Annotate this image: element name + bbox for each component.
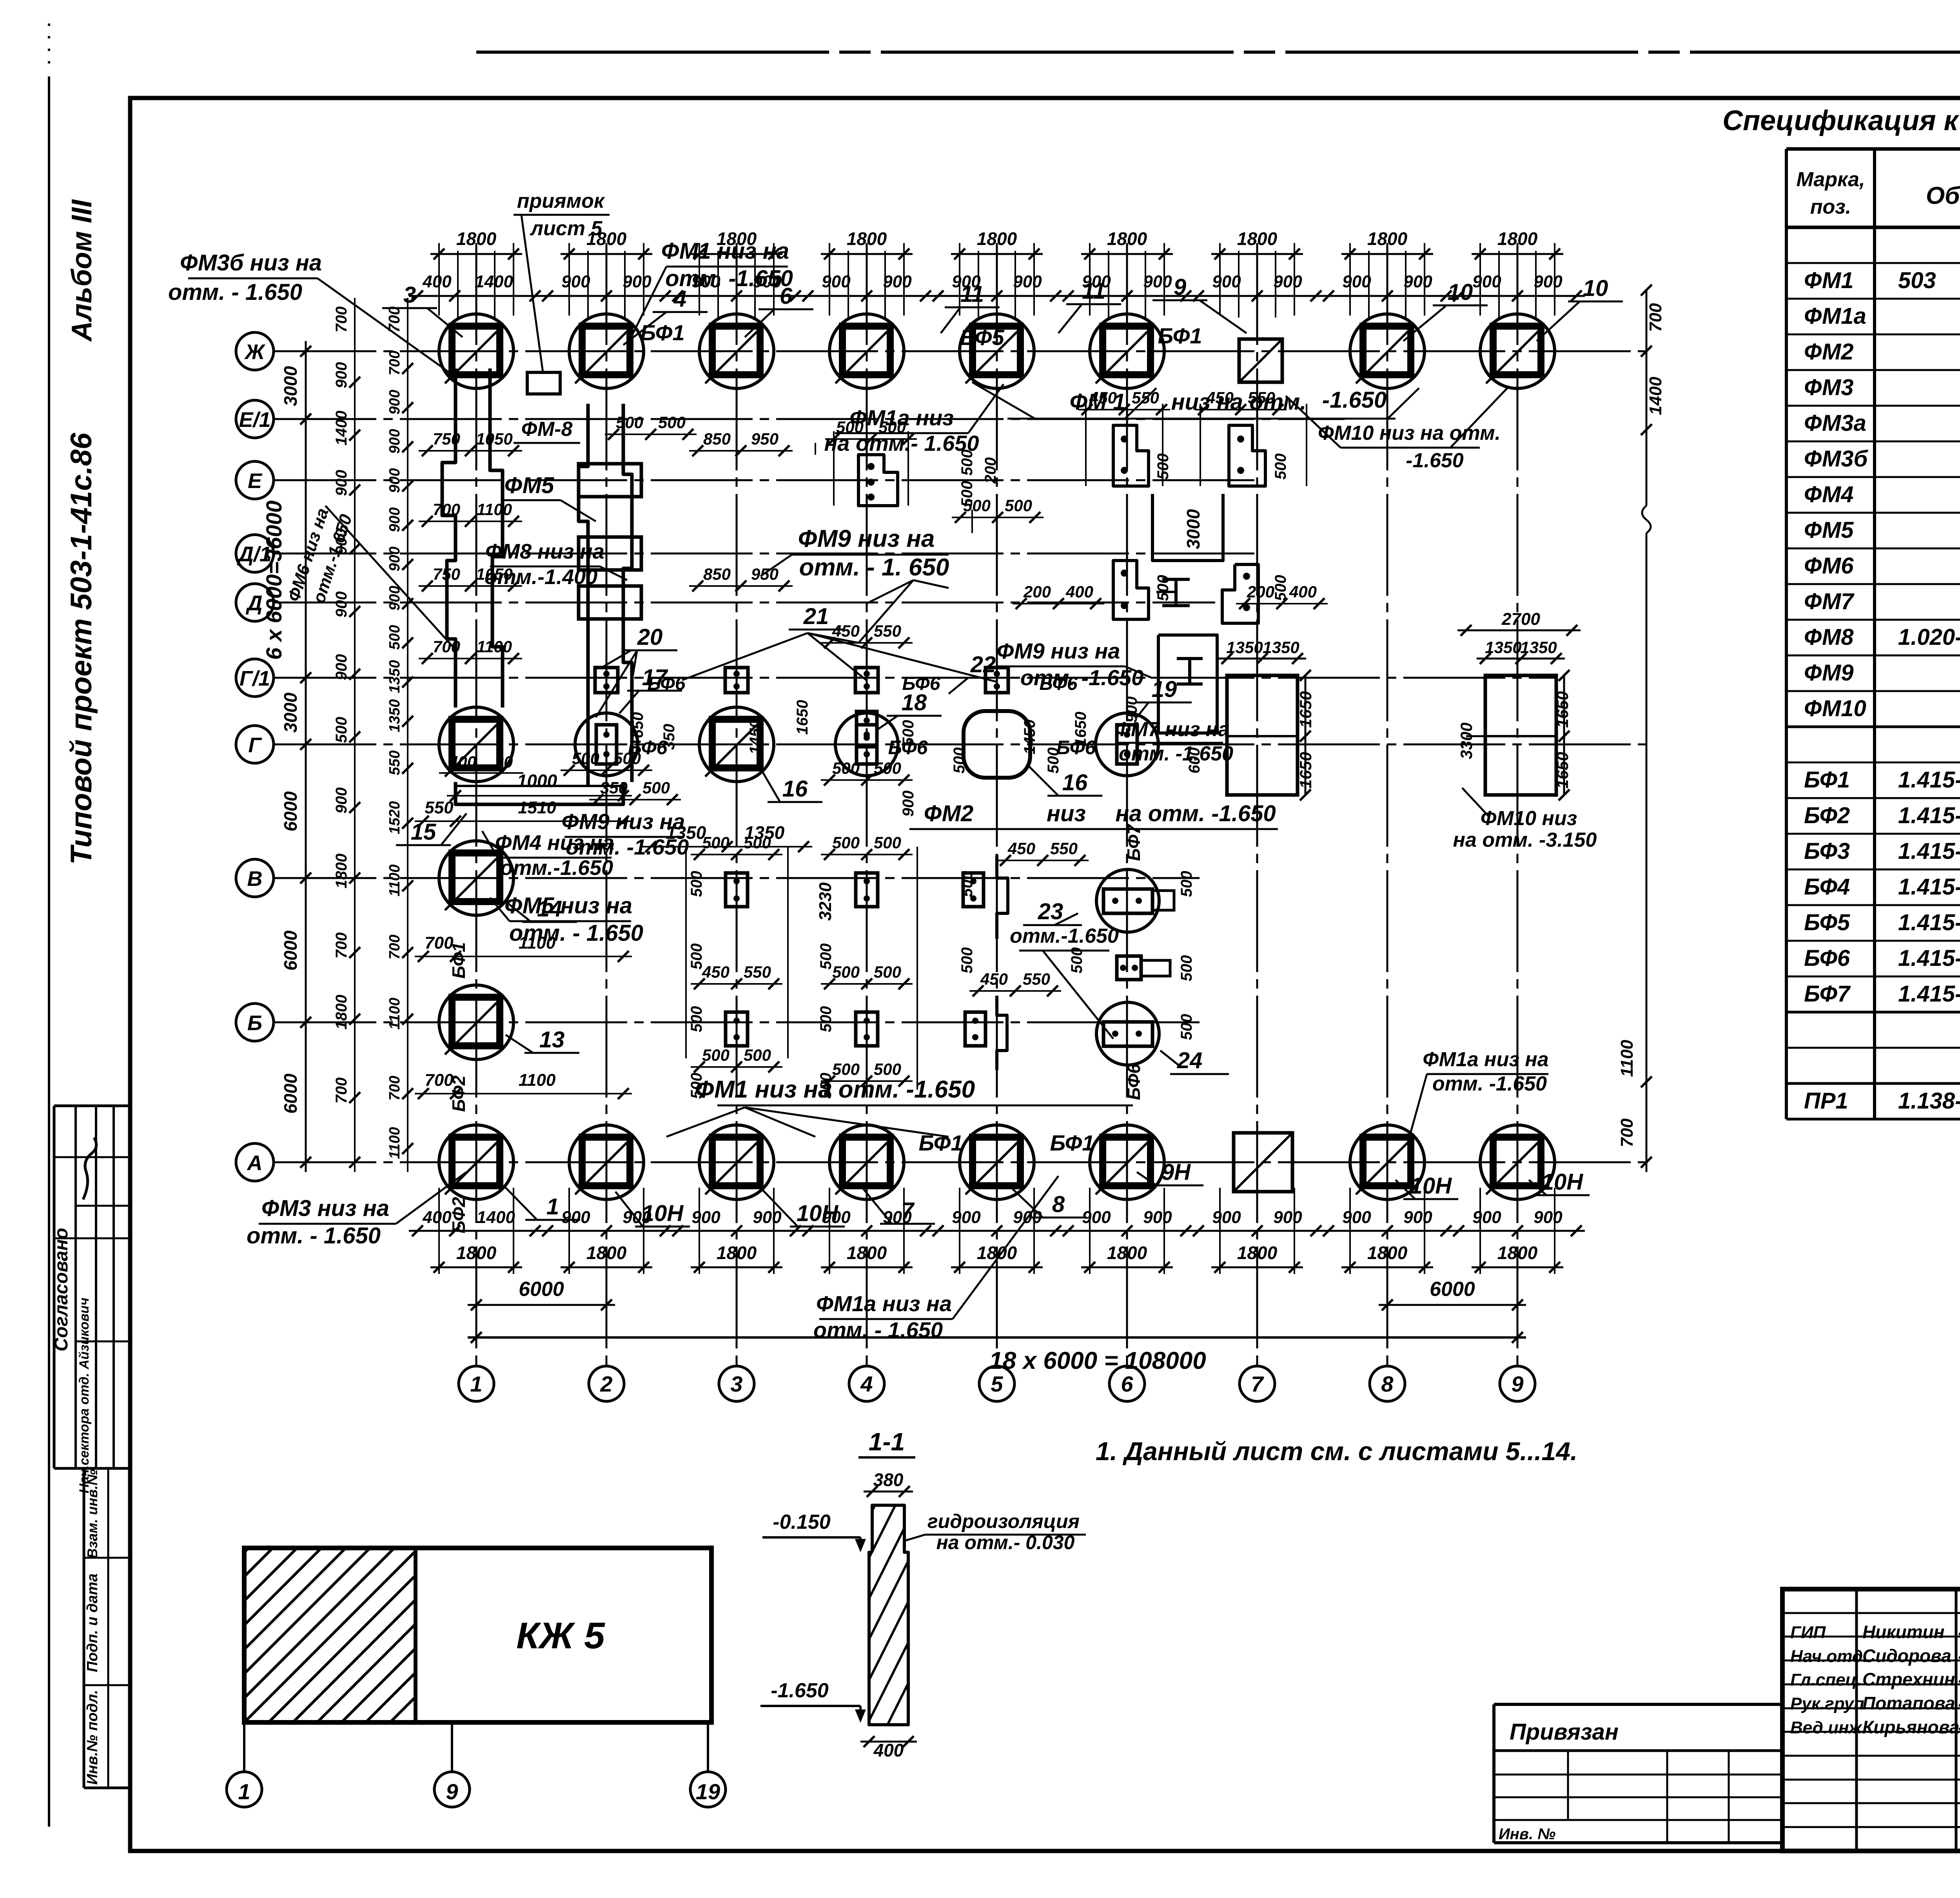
svg-text:БФ1: БФ1 xyxy=(1804,767,1850,793)
section 1-1 wall xyxy=(720,1497,1164,1733)
svg-text:20: 20 xyxy=(637,624,663,650)
svg-text:18 х 6000 = 108000: 18 х 6000 = 108000 xyxy=(989,1347,1206,1374)
svg-text:500: 500 xyxy=(832,963,860,981)
svg-text:550: 550 xyxy=(1132,388,1159,407)
foundation at Ж-8 xyxy=(1350,314,1425,388)
svg-text:500: 500 xyxy=(832,833,860,852)
svg-text:1400: 1400 xyxy=(475,272,513,291)
bottom dimension chain axis 6 xyxy=(1060,1188,1194,1274)
svg-text:16: 16 xyxy=(1062,770,1088,795)
foundation at Г-1 xyxy=(439,707,514,782)
dim pair 850 950 row Е-3 xyxy=(689,450,793,452)
svg-text:950: 950 xyxy=(751,565,779,583)
svg-text:отм. - 1.650: отм. - 1.650 xyxy=(247,1223,381,1248)
svg-text:900: 900 xyxy=(561,272,590,291)
sheet outer edge line xyxy=(48,76,50,1827)
svg-text:500: 500 xyxy=(688,1006,705,1032)
foundation ФМ9 at Г-2 xyxy=(575,713,638,776)
svg-text:1800: 1800 xyxy=(847,229,887,249)
dim pair 700 1100 below В-1 xyxy=(415,956,632,957)
svg-text:5: 5 xyxy=(991,1372,1003,1396)
svg-text:200: 200 xyxy=(1023,582,1051,601)
svg-text:ФМ6: ФМ6 xyxy=(1804,553,1854,579)
svg-text:700: 700 xyxy=(433,637,460,656)
svg-text:750: 750 xyxy=(433,430,460,448)
svg-text:500: 500 xyxy=(688,1073,705,1099)
svg-text:700: 700 xyxy=(1646,303,1665,332)
leader 23 xyxy=(1054,913,1078,925)
svg-text:500: 500 xyxy=(688,944,705,970)
svg-text:500: 500 xyxy=(832,759,860,777)
axis circle В xyxy=(236,859,274,897)
dim pair 500 500 below Г-2 xyxy=(561,769,652,771)
axis line 1 xyxy=(475,243,477,1366)
svg-text:1800: 1800 xyxy=(1497,1243,1538,1263)
axis circle 8 xyxy=(1370,1366,1405,1401)
svg-text:900: 900 xyxy=(387,586,403,610)
foundation at В-6 xyxy=(1096,869,1159,932)
svg-text:1.415-1: 1.415-1 xyxy=(1898,910,1960,935)
left third dimension chain xyxy=(386,298,413,1172)
leader 24 xyxy=(1160,1051,1180,1066)
foundation at Ж-1 xyxy=(439,314,514,388)
svg-text:1: 1 xyxy=(470,1372,482,1396)
svg-text:10Н: 10Н xyxy=(1410,1173,1452,1199)
dim pair 500 500 below Г-4 xyxy=(821,779,913,781)
svg-text:6000: 6000 xyxy=(280,930,301,971)
svg-text:ФМ3а: ФМ3а xyxy=(1804,410,1866,436)
foundation at А-5 xyxy=(960,1125,1034,1199)
svg-text:450: 450 xyxy=(832,622,860,640)
svg-text:Кирьянова: Кирьянова xyxy=(1862,1717,1960,1737)
svg-text:Марка,: Марка, xyxy=(1797,168,1865,191)
svg-text:Г/1: Г/1 xyxy=(240,667,270,690)
top dimension chain axis 1 xyxy=(409,229,544,318)
svg-text:Стрехнин: Стрехнин xyxy=(1862,1669,1955,1689)
axis circle 6 xyxy=(1109,1366,1145,1401)
foundation at Ж-3 xyxy=(699,314,774,388)
dim pair 500 500 mid xyxy=(952,517,1044,518)
svg-text:1510: 1510 xyxy=(518,798,556,817)
svg-text:900: 900 xyxy=(1143,1208,1172,1227)
axis line Д xyxy=(274,602,1215,604)
dim pair 750 1050 row Д-2b xyxy=(419,585,522,587)
axis line 6 xyxy=(1126,243,1128,1366)
bottom dimension chain axis 8 xyxy=(1320,1188,1455,1274)
svg-text:1800: 1800 xyxy=(1107,229,1147,249)
svg-text:900: 900 xyxy=(1472,272,1501,291)
bottom dimension chain axis 7 xyxy=(1190,1188,1325,1274)
svg-text:Согласовано: Согласовано xyxy=(51,1228,72,1352)
svg-text:Нач.сектора отд. Айзикович: Нач.сектора отд. Айзикович xyxy=(77,1297,92,1493)
pad at Д/1-5 xyxy=(1113,561,1149,619)
svg-text:1100: 1100 xyxy=(387,1127,403,1159)
svg-text:Б: Б xyxy=(247,1011,262,1035)
svg-text:1050: 1050 xyxy=(476,430,512,448)
pad БФ6 at Г/1-2 xyxy=(595,668,618,693)
foundation at Б-6 xyxy=(1096,1002,1159,1065)
foundation at Ж-6 xyxy=(1090,314,1164,388)
svg-text:500: 500 xyxy=(744,1046,771,1064)
axis line 2 xyxy=(606,243,608,1366)
svg-text:1800: 1800 xyxy=(717,1243,757,1263)
svg-text:1350: 1350 xyxy=(744,822,785,843)
svg-text:6000: 6000 xyxy=(1430,1278,1475,1301)
bottom dimension chain axis 2 xyxy=(539,1188,674,1274)
svg-text:1800: 1800 xyxy=(1497,229,1538,249)
leader 21 with fan xyxy=(682,604,998,682)
svg-text:ФМ5: ФМ5 xyxy=(1804,517,1854,543)
svg-text:6000: 6000 xyxy=(280,1073,301,1114)
svg-text:ФМ1а низ на: ФМ1а низ на xyxy=(1423,1048,1548,1071)
axis line 9 xyxy=(1517,243,1519,1366)
svg-text:600: 600 xyxy=(1186,748,1203,774)
svg-text:1450: 1450 xyxy=(747,720,764,755)
axis circle Д xyxy=(236,584,274,621)
svg-text:500: 500 xyxy=(874,833,901,852)
svg-text:500: 500 xyxy=(616,413,643,432)
specification table rows xyxy=(1804,231,1960,1114)
dim pair 700 1100 row Г-2 xyxy=(419,658,522,659)
foundation at Ж-4 xyxy=(829,314,904,388)
pad БФ6 at Г/1-5 xyxy=(985,668,1008,693)
svg-text:поз.: поз. xyxy=(1810,196,1851,218)
dim pair 850 950 row Д-3 xyxy=(689,585,793,587)
svg-text:1: 1 xyxy=(546,1194,559,1219)
svg-text:1800: 1800 xyxy=(1367,1243,1408,1263)
top dimension chain axis 9 xyxy=(1450,229,1585,318)
svg-text:900: 900 xyxy=(822,272,851,291)
svg-text:350: 350 xyxy=(600,778,628,797)
dim 2700 above ФМ10 xyxy=(1457,630,1581,631)
svg-text:500: 500 xyxy=(613,749,641,768)
svg-text:650: 650 xyxy=(629,712,646,739)
svg-text:1100: 1100 xyxy=(1617,1040,1637,1077)
svg-text:А: А xyxy=(247,1151,263,1175)
title block xyxy=(1782,1589,1960,1851)
svg-text:500: 500 xyxy=(1154,575,1172,601)
key plan axis 1 xyxy=(227,1772,262,1807)
svg-text:Сидорова: Сидорова xyxy=(1862,1646,1951,1666)
svg-text:ПР1: ПР1 xyxy=(1804,1088,1848,1114)
svg-text:1100: 1100 xyxy=(477,500,512,519)
dim 1350 1350 at Г-7 xyxy=(1218,658,1306,660)
svg-text:Альбом III: Альбом III xyxy=(66,199,98,342)
svg-text:900: 900 xyxy=(333,529,350,555)
svg-text:850: 850 xyxy=(703,430,731,448)
axis line Ж xyxy=(274,350,1646,352)
foundation at Г-4 xyxy=(835,713,898,776)
axis line 8 xyxy=(1387,243,1388,1366)
axis line Е/1 xyxy=(274,418,1345,420)
section dim 380 xyxy=(864,1491,913,1493)
section dim 400 xyxy=(860,1741,917,1743)
svg-text:3000: 3000 xyxy=(280,366,301,406)
axis line 5 xyxy=(996,243,998,1366)
top dimension chain axis 2 xyxy=(539,229,674,318)
strip pad at Д-2 xyxy=(579,586,641,619)
svg-text:1800: 1800 xyxy=(586,1243,627,1263)
axis circle Б xyxy=(236,1003,274,1041)
foundation ФМ1а at А-7 xyxy=(1234,1133,1292,1192)
svg-text:500: 500 xyxy=(387,625,403,650)
svg-text:500: 500 xyxy=(688,871,705,897)
foundation at А-2 xyxy=(569,1125,644,1199)
svg-text:Д: Д xyxy=(246,592,263,615)
svg-text:450: 450 xyxy=(1089,388,1117,407)
svg-text:500: 500 xyxy=(1272,575,1289,601)
axis line 3 xyxy=(736,243,738,1366)
axis circle 7 xyxy=(1240,1366,1275,1401)
svg-text:950: 950 xyxy=(751,430,779,448)
svg-text:Обозначение: Обозначение xyxy=(1926,182,1960,209)
foundation at Г-5 xyxy=(964,711,1030,778)
svg-text:700: 700 xyxy=(333,1078,350,1104)
svg-text:1350: 1350 xyxy=(1520,638,1557,657)
svg-text:500: 500 xyxy=(642,778,670,797)
strip pad at Е-2 xyxy=(579,464,641,497)
svg-text:550: 550 xyxy=(425,798,454,817)
svg-text:БФ5: БФ5 xyxy=(1804,910,1850,935)
dim pair 350 500 below Г-2b xyxy=(589,799,681,800)
svg-text:1650: 1650 xyxy=(1072,712,1089,747)
pad at В-5 with step xyxy=(963,855,1008,939)
svg-text:3: 3 xyxy=(730,1372,742,1396)
pad below Г/1-4 xyxy=(857,711,877,747)
top dimension chain axis 4 xyxy=(799,229,934,318)
svg-text:500: 500 xyxy=(1178,955,1195,982)
svg-text:3000: 3000 xyxy=(280,692,301,733)
axis circle Е xyxy=(236,461,274,499)
svg-text:700: 700 xyxy=(387,934,403,959)
svg-text:7: 7 xyxy=(901,1198,915,1223)
svg-text:500: 500 xyxy=(1178,1014,1195,1040)
svg-text:450: 450 xyxy=(1007,839,1035,858)
dim pair 500 500 above Е-4 xyxy=(825,438,917,440)
svg-text:лист 5: лист 5 xyxy=(530,217,603,240)
svg-text:24: 24 xyxy=(1177,1048,1203,1073)
svg-text:1100: 1100 xyxy=(477,637,512,656)
svg-text:на отм. -3.150: на отм. -3.150 xyxy=(1453,829,1597,851)
dim pair 200 400 mid2 xyxy=(1236,603,1328,604)
svg-text:900: 900 xyxy=(1403,272,1432,291)
svg-text:БФ1: БФ1 xyxy=(1050,1130,1094,1155)
axis circle 2 xyxy=(589,1366,624,1401)
svg-text:700: 700 xyxy=(425,1071,454,1090)
svg-text:1.415-1: 1.415-1 xyxy=(1898,981,1960,1007)
svg-text:1350: 1350 xyxy=(1485,638,1521,657)
svg-text:отм. -1.650: отм. -1.650 xyxy=(665,266,793,291)
svg-text:Инв. №: Инв. № xyxy=(1499,1825,1555,1843)
svg-text:1400: 1400 xyxy=(333,411,350,446)
foundation at Ж-5 xyxy=(960,314,1034,388)
svg-text:отм. -1.650: отм. -1.650 xyxy=(1432,1072,1547,1095)
svg-text:500: 500 xyxy=(1272,454,1289,480)
svg-text:Никитин: Никитин xyxy=(1862,1622,1945,1642)
dim pair 450 550 above Е/1-6 xyxy=(1195,409,1287,410)
svg-text:500: 500 xyxy=(874,963,901,981)
svg-text:23: 23 xyxy=(1038,899,1063,924)
svg-text:11: 11 xyxy=(1082,278,1105,304)
svg-text:900: 900 xyxy=(691,1208,720,1227)
svg-text:гидроизоляция: гидроизоляция xyxy=(927,1510,1080,1532)
svg-text:БФ1: БФ1 xyxy=(1158,323,1202,348)
svg-text:отм. -1.650: отм. -1.650 xyxy=(1119,742,1233,765)
svg-text:1800: 1800 xyxy=(1107,1243,1147,1263)
svg-text:900: 900 xyxy=(387,390,403,414)
dim pair 450 550 above Б-5 xyxy=(969,990,1061,992)
leader 20 fan lines xyxy=(596,651,637,717)
key plan axis 9 xyxy=(434,1772,470,1807)
svg-text:500: 500 xyxy=(1068,947,1085,974)
svg-text:500: 500 xyxy=(817,1006,835,1032)
svg-text:1350: 1350 xyxy=(666,822,706,843)
svg-text:16: 16 xyxy=(782,776,808,802)
svg-text:21: 21 xyxy=(803,604,829,629)
pad БФ6 at Г/1-3 xyxy=(725,668,748,693)
svg-text:850: 850 xyxy=(703,565,731,583)
svg-text:900: 900 xyxy=(1273,1208,1302,1227)
svg-text:1800: 1800 xyxy=(1367,229,1408,249)
foundation ФМ10 at Ж-7 xyxy=(1239,339,1282,382)
svg-text:500: 500 xyxy=(1178,871,1195,897)
pad at Д/1-6 xyxy=(1222,564,1258,623)
foundation ФМ10 big at Г-9 xyxy=(1466,675,1556,795)
bottom dimension chain axis 4 xyxy=(799,1188,934,1274)
svg-text:ФМ10: ФМ10 xyxy=(1804,696,1866,721)
svg-text:1400: 1400 xyxy=(477,1208,515,1227)
svg-text:приямок: приямок xyxy=(517,190,605,212)
svg-text:БФ3: БФ3 xyxy=(1804,838,1850,864)
bottom dimension chain axis 9 xyxy=(1450,1188,1585,1274)
svg-text:450: 450 xyxy=(980,970,1008,988)
svg-text:10Н: 10Н xyxy=(1541,1169,1584,1195)
svg-text:ФМ4: ФМ4 xyxy=(1804,482,1854,507)
svg-text:БФ6: БФ6 xyxy=(1804,945,1850,971)
axis line 4 xyxy=(866,243,868,1366)
svg-text:1100: 1100 xyxy=(387,998,403,1030)
svg-text:700: 700 xyxy=(1617,1118,1637,1147)
binding table xyxy=(1494,1704,1782,1843)
axis circle Д/1 xyxy=(236,535,274,572)
svg-text:1100: 1100 xyxy=(387,864,403,896)
svg-text:БФ7: БФ7 xyxy=(1123,824,1144,861)
svg-text:БФ1: БФ1 xyxy=(640,320,684,345)
axis line 7 xyxy=(1256,243,1258,1366)
svg-text:500: 500 xyxy=(874,1060,901,1078)
dim pair 700 1100 row Д-2 xyxy=(419,521,522,522)
svg-text:1450: 1450 xyxy=(1021,720,1038,755)
svg-text:17: 17 xyxy=(642,665,668,690)
svg-text:400: 400 xyxy=(1289,582,1317,601)
svg-text:20: 20 xyxy=(494,753,513,771)
pad БФ6 at Г/1-4 xyxy=(855,668,878,693)
svg-text:10: 10 xyxy=(1583,276,1608,301)
svg-text:500: 500 xyxy=(951,748,968,774)
svg-text:Гл.спец.: Гл.спец. xyxy=(1790,1670,1861,1689)
dim pair 500 500 above Б-4 xyxy=(821,983,913,985)
svg-text:9: 9 xyxy=(1511,1372,1523,1396)
svg-text:низ: низ xyxy=(1047,801,1086,826)
svg-text:900: 900 xyxy=(1273,272,1302,291)
dim pair 500 500 above В-4 xyxy=(821,854,913,855)
svg-text:1650: 1650 xyxy=(794,700,811,735)
svg-text:500: 500 xyxy=(832,1060,860,1078)
pad cluster at Е/1-5 left xyxy=(1113,425,1149,486)
svg-text:Типовой проект 503-1-41с.86: Типовой проект 503-1-41с.86 xyxy=(65,432,98,864)
svg-text:1.415-1: 1.415-1 xyxy=(1898,767,1960,793)
svg-text:10Н: 10Н xyxy=(642,1201,684,1226)
svg-text:1800: 1800 xyxy=(1237,229,1278,249)
svg-text:8: 8 xyxy=(1052,1192,1065,1217)
svg-text:ФМ7: ФМ7 xyxy=(1804,589,1855,614)
overall dimension 18x6000=108000 xyxy=(468,1336,1526,1339)
top dimension chain axis 3 xyxy=(669,229,804,318)
svg-text:ФМ9: ФМ9 xyxy=(1804,660,1854,686)
pad between В-6 and Б-6 xyxy=(1117,956,1141,980)
svg-text:900: 900 xyxy=(1534,272,1563,291)
svg-text:отм. - 1.650: отм. - 1.650 xyxy=(168,279,302,305)
specification table grid xyxy=(1786,149,1960,1119)
svg-text:6 х 6000=36000: 6 х 6000=36000 xyxy=(261,501,286,660)
strip pad at Д/1-2 xyxy=(579,537,641,570)
svg-text:ФМ3б: ФМ3б xyxy=(1804,446,1869,472)
svg-text:900: 900 xyxy=(561,1208,590,1227)
svg-text:550: 550 xyxy=(387,750,403,775)
svg-text:1650: 1650 xyxy=(1553,691,1572,728)
bottom dimension chain axis 1 xyxy=(409,1188,544,1274)
svg-text:Е/1: Е/1 xyxy=(239,408,270,432)
svg-text:1.415-1: 1.415-1 xyxy=(1898,874,1960,900)
top dimension chain axis 8 xyxy=(1320,229,1455,318)
svg-text:22: 22 xyxy=(970,652,996,677)
svg-text:900: 900 xyxy=(1143,272,1172,291)
svg-text:1.415-1: 1.415-1 xyxy=(1898,803,1960,828)
svg-text:1100: 1100 xyxy=(519,1071,556,1090)
axis line Г/1 xyxy=(274,677,1556,679)
svg-text:700: 700 xyxy=(433,500,460,519)
svg-text:19: 19 xyxy=(696,1779,720,1804)
svg-text:500: 500 xyxy=(836,418,864,436)
svg-text:1800: 1800 xyxy=(456,229,497,249)
svg-text:отм.-1.650: отм.-1.650 xyxy=(500,856,613,880)
svg-text:ФМ9 низ на: ФМ9 низ на xyxy=(997,639,1120,663)
svg-text:500: 500 xyxy=(900,720,917,746)
svg-text:19: 19 xyxy=(1152,677,1177,702)
svg-text:10Н: 10Н xyxy=(797,1201,839,1226)
svg-text:1.020-1/83 вып. 1-1: 1.020-1/83 вып. 1-1 xyxy=(1898,624,1960,650)
axis circle А xyxy=(236,1143,274,1181)
pad at Б-4 xyxy=(856,1012,878,1046)
svg-text:900: 900 xyxy=(387,429,403,454)
svg-text:9Н: 9Н xyxy=(1161,1159,1191,1185)
svg-text:1800: 1800 xyxy=(333,854,350,889)
svg-text:900: 900 xyxy=(1082,1208,1111,1227)
strip foundation along axis 1 xyxy=(442,368,456,708)
foundation ФМ7 at Г-6 xyxy=(1096,713,1158,776)
axis line А xyxy=(274,1161,1646,1163)
top margin line xyxy=(476,51,1960,54)
svg-text:КЖ 5: КЖ 5 xyxy=(516,1615,605,1657)
foundation at А-6 xyxy=(1090,1125,1164,1199)
svg-text:10: 10 xyxy=(1448,279,1473,305)
svg-text:750: 750 xyxy=(433,565,460,583)
svg-text:500: 500 xyxy=(1005,496,1032,515)
svg-text:500: 500 xyxy=(878,418,906,436)
svg-text:3300: 3300 xyxy=(1457,722,1475,759)
svg-text:7: 7 xyxy=(1251,1372,1264,1396)
svg-text:500: 500 xyxy=(958,450,976,476)
